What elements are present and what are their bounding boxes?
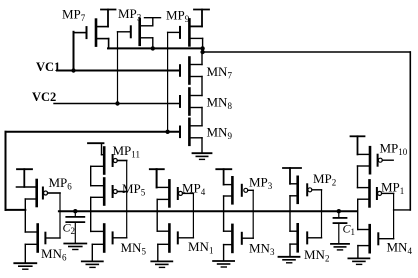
wire cascode bias to right edge xyxy=(203,51,411,53)
supply bar MP10 xyxy=(351,135,365,137)
transistor MN8 xyxy=(179,96,181,107)
wire MP2 drain to MN2 drain xyxy=(289,196,291,231)
ground MN4 xyxy=(348,257,369,259)
supply bar MP7 xyxy=(101,9,116,11)
wire right edge vertical xyxy=(409,52,411,210)
wire right edge to MP1/MN4 gate line xyxy=(394,209,411,211)
transistor MN3 xyxy=(231,225,234,252)
wire MN6 source to ground xyxy=(24,244,26,262)
wire output rail xyxy=(59,210,357,212)
svg-text:MP2: MP2 xyxy=(313,171,336,188)
svg-text:VC2: VC2 xyxy=(32,90,56,104)
svg-text:MN1: MN1 xyxy=(188,239,213,256)
wire MN1 source to ground xyxy=(157,244,159,260)
wire VC1 xyxy=(57,70,180,72)
junction dot cascode node xyxy=(200,50,204,54)
wire MP1 drain to rail and MN4 drain xyxy=(357,199,359,229)
wire MP3/MN3 gate vertical xyxy=(252,190,254,238)
transistor MP3 lower xyxy=(231,177,234,203)
ground MN9 xyxy=(193,152,212,154)
svg-text:MN9: MN9 xyxy=(207,125,233,142)
wire MN4 source to ground xyxy=(357,246,359,258)
supply bar MP3 xyxy=(145,17,161,19)
svg-text:MN2: MN2 xyxy=(304,247,329,264)
wire MP11 drain to MP5 source xyxy=(90,166,92,185)
transistor MN2 xyxy=(296,224,299,251)
wire MP1/MN4 gate vertical xyxy=(393,193,395,238)
svg-text:MN3: MN3 xyxy=(249,241,275,258)
svg-text:C1: C1 xyxy=(343,222,356,238)
junction dot C1 tap xyxy=(337,209,341,213)
wire MP3 drain to MN3 drain xyxy=(223,196,225,231)
junction dot bus right end xyxy=(200,46,204,50)
wire feedback left vertical xyxy=(5,132,7,210)
transistor MP4 xyxy=(168,180,171,206)
wire MP3 gate down to VC2 xyxy=(117,32,119,104)
capacitor C1 xyxy=(338,211,340,217)
capacitor C2 xyxy=(74,211,76,216)
svg-text:VC1: VC1 xyxy=(36,60,60,74)
svg-text:MN7: MN7 xyxy=(207,64,233,81)
svg-text:MP6: MP6 xyxy=(49,175,73,192)
transistor MP9 xyxy=(168,31,179,33)
junction dot MP9-gate/MN9-gate wire xyxy=(165,130,169,134)
junction dot VC1/MP7 xyxy=(71,68,75,72)
wire MP9 gate down to MN9 gate net xyxy=(167,32,169,131)
wire MP7 gate to VC1 xyxy=(73,32,75,71)
junction dot MP3 drain on bus xyxy=(151,46,155,50)
wire MP2/MN2 gate vertical xyxy=(321,190,323,238)
supply bar MP2 xyxy=(283,167,301,169)
wire MP6/MN6 gates vertical xyxy=(59,193,61,238)
ground MN5 xyxy=(82,260,103,262)
svg-text:MP10: MP10 xyxy=(380,141,408,158)
transistor MN4 xyxy=(368,225,371,252)
svg-text:MN4: MN4 xyxy=(387,240,413,257)
transistor MP10 xyxy=(369,147,372,173)
ground MN6 xyxy=(14,262,36,264)
wire VC2 xyxy=(54,103,180,105)
ground MN2 xyxy=(279,256,300,258)
transistor MN6 xyxy=(36,225,39,252)
wire MN2 source to ground xyxy=(289,244,291,256)
transistor MP2 xyxy=(296,177,299,203)
transistor MN9 xyxy=(179,127,181,138)
junction dot VC2/MP3-gate xyxy=(115,101,119,105)
ground MN1 xyxy=(151,260,172,262)
transistor MN1 xyxy=(168,225,171,252)
transistor MP7 xyxy=(74,32,86,34)
svg-text:MP7: MP7 xyxy=(62,7,86,24)
transistor MP6 xyxy=(35,180,38,206)
svg-text:MP11: MP11 xyxy=(113,143,140,160)
svg-text:MN8: MN8 xyxy=(207,95,233,112)
svg-text:MP5: MP5 xyxy=(122,181,146,198)
wire jog at bus end xyxy=(202,48,204,52)
wire MN3 source to ground xyxy=(223,245,225,261)
transistor MP1 xyxy=(368,180,371,206)
svg-text:MP1: MP1 xyxy=(381,180,404,197)
supply bar MP9 xyxy=(194,9,209,11)
wire MP5 drain to MN5 drain xyxy=(90,197,92,231)
wire MN9 gate / feedback xyxy=(6,131,181,133)
supply bar MP11 xyxy=(88,142,104,144)
ground C1 xyxy=(331,243,349,245)
ground C2 xyxy=(64,243,86,245)
wire MP11/MP5 gate vertical to rail and MN5 gate xyxy=(126,161,128,238)
transistor MP3 xyxy=(118,31,130,33)
wire MP10 drain to MP1 source xyxy=(357,166,359,188)
ground MN3 xyxy=(213,260,234,262)
transistor MP5 xyxy=(103,179,106,205)
svg-text:MN5: MN5 xyxy=(121,240,147,257)
wire feedback bottom to MN6 drain xyxy=(6,209,26,211)
wire MP6 drain to MN6 drain xyxy=(24,199,26,232)
wire MN5 source to ground xyxy=(91,244,93,260)
transistor MN7 xyxy=(179,65,181,76)
supply bar MP3 lower xyxy=(216,168,231,170)
wire MP4/MN1 gate vertical xyxy=(192,193,194,237)
supply bar MP4 xyxy=(150,168,164,170)
svg-text:MN6: MN6 xyxy=(41,246,67,263)
wire MP4 drain to MN1 drain xyxy=(156,199,158,231)
svg-text:MP9: MP9 xyxy=(166,8,190,25)
transistor MN5 xyxy=(103,225,106,252)
supply bar MP6 xyxy=(17,168,32,170)
wire drain bus MP7/MP3/MP9 xyxy=(108,47,203,49)
junction dot C2 tap xyxy=(73,209,77,213)
svg-text:MP3: MP3 xyxy=(118,6,142,23)
svg-text:MP3: MP3 xyxy=(249,175,273,192)
transistor MP11 xyxy=(103,148,106,174)
